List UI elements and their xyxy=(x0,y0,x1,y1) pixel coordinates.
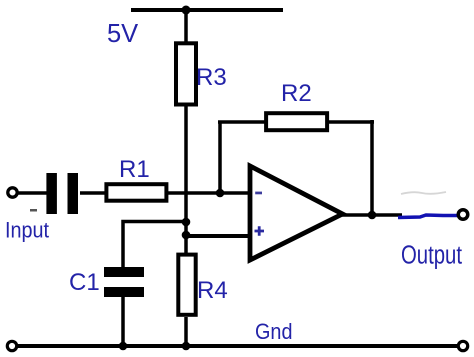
node bias to C1 xyxy=(182,218,191,227)
wire feedback right vertical to output node xyxy=(370,120,374,215)
capacitor C1 top plate xyxy=(104,267,144,277)
svg-text:Input: Input xyxy=(5,217,50,242)
svg-text:Output: Output xyxy=(401,242,462,270)
svg-text:C1: C1 xyxy=(69,269,100,296)
resistor R1 xyxy=(106,184,166,201)
node output / feedback junction xyxy=(368,211,377,220)
svg-text:R2: R2 xyxy=(281,80,312,107)
node inverting input / feedback junction xyxy=(216,189,225,198)
wire 5V rail to R3 top xyxy=(184,10,188,45)
wire R3 bottom to R4 top (bias rail) xyxy=(184,105,188,255)
node junction on 5V rail xyxy=(182,6,191,15)
node bias to op-amp + input xyxy=(182,231,191,240)
wire input terminal to coupling capacitor xyxy=(18,191,47,195)
svg-text:Gnd: Gnd xyxy=(255,319,293,344)
op-amp U1 xyxy=(250,166,343,260)
polarity minus mark under coupling capacitor xyxy=(30,209,37,212)
wire coupling capacitor to R1 xyxy=(80,191,106,195)
terminal ground right xyxy=(458,341,467,350)
svg-text:R1: R1 xyxy=(119,156,150,183)
resistor R2 xyxy=(266,113,327,130)
node C1 on ground rail xyxy=(119,342,128,351)
wire R1 to op-amp inverting input xyxy=(168,191,250,195)
resistor R3 xyxy=(176,43,196,104)
faint erased mark above output wire xyxy=(401,192,446,194)
svg-text:R4: R4 xyxy=(197,277,228,304)
op-amp non-inverting input symbol xyxy=(255,226,265,236)
resistor R4 xyxy=(178,255,195,315)
terminal output xyxy=(458,210,468,220)
wire feedback left vertical xyxy=(218,122,222,193)
svg-text:5V: 5V xyxy=(107,20,138,48)
wire feedback top left to R2 xyxy=(218,120,266,124)
wire output hand-drawn blue segment xyxy=(398,215,457,218)
capacitor input coupling right plate xyxy=(68,173,79,214)
op-amp inverting input symbol xyxy=(255,192,262,195)
capacitor input coupling left plate xyxy=(46,173,57,214)
terminal input xyxy=(8,188,17,197)
node R4 on ground rail xyxy=(182,342,191,351)
wire 5V top rail xyxy=(131,8,283,12)
capacitor C1 bottom plate xyxy=(104,287,144,297)
wire R4 bottom to ground rail xyxy=(184,317,188,346)
wire R2 to feedback right vertical xyxy=(328,120,374,124)
wire bias node to op-amp + input xyxy=(186,234,250,238)
wire ground rail xyxy=(18,344,458,348)
svg-text:R3: R3 xyxy=(196,64,227,91)
wire C1 bottom to ground rail xyxy=(121,296,125,346)
wire bias node to C1 top xyxy=(123,222,186,269)
terminal ground left xyxy=(7,341,16,350)
wire op-amp output xyxy=(342,213,402,217)
